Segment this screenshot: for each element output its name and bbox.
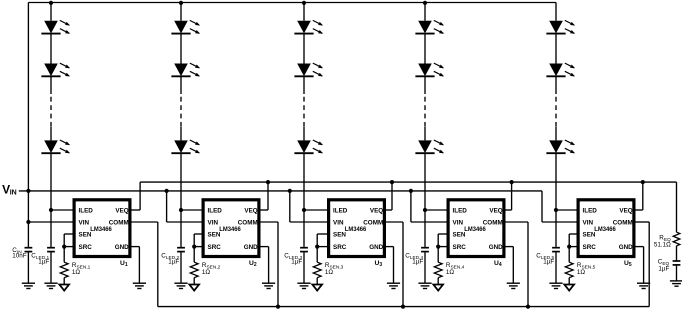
- svg-text:IN: IN: [10, 189, 17, 196]
- svg-text:GND: GND: [369, 244, 383, 251]
- svg-text:VIN: VIN: [453, 219, 464, 226]
- svg-text:LM3466: LM3466: [594, 226, 616, 233]
- svg-text:SRC: SRC: [208, 244, 222, 251]
- svg-text:1µF: 1µF: [412, 259, 423, 266]
- svg-text:1Ω: 1Ω: [325, 269, 334, 276]
- svg-text:1µF: 1µF: [658, 265, 669, 272]
- svg-text:GND: GND: [115, 244, 129, 251]
- svg-text:LM3466: LM3466: [464, 226, 486, 233]
- svg-text:VEQ: VEQ: [619, 207, 632, 214]
- svg-text:COMM: COMM: [238, 219, 258, 226]
- svg-text:SRC: SRC: [453, 244, 467, 251]
- svg-text:VEQ: VEQ: [370, 207, 383, 214]
- svg-text:ILED: ILED: [333, 207, 348, 214]
- svg-text:GND: GND: [489, 244, 503, 251]
- svg-text:ILED: ILED: [583, 207, 598, 214]
- svg-text:VEQ: VEQ: [489, 207, 502, 214]
- svg-text:LM3466: LM3466: [345, 226, 367, 233]
- svg-text:1µF: 1µF: [291, 259, 302, 266]
- svg-text:1Ω: 1Ω: [72, 269, 81, 276]
- svg-text:VIN: VIN: [208, 219, 219, 226]
- svg-text:COMM: COMM: [613, 219, 633, 226]
- svg-text:ILED: ILED: [79, 207, 94, 214]
- svg-text:51.1Ω: 51.1Ω: [654, 241, 671, 248]
- svg-text:1Ω: 1Ω: [446, 269, 455, 276]
- svg-text:VIN: VIN: [79, 219, 90, 226]
- svg-text:COMM: COMM: [363, 219, 383, 226]
- svg-text:1µF: 1µF: [543, 259, 554, 266]
- svg-text:SRC: SRC: [333, 244, 347, 251]
- svg-text:LM3466: LM3466: [219, 226, 241, 233]
- svg-text:COMM: COMM: [109, 219, 129, 226]
- svg-text:VEQ: VEQ: [115, 207, 128, 214]
- svg-text:COMM: COMM: [483, 219, 503, 226]
- svg-text:GND: GND: [244, 244, 258, 251]
- svg-text:ILED: ILED: [453, 207, 468, 214]
- svg-text:VIN: VIN: [583, 219, 594, 226]
- svg-text:LM3466: LM3466: [90, 226, 112, 233]
- svg-text:1µF: 1µF: [168, 259, 179, 266]
- svg-text:1Ω: 1Ω: [577, 269, 586, 276]
- svg-text:ILED: ILED: [208, 207, 223, 214]
- svg-text:VIN: VIN: [333, 219, 344, 226]
- svg-text:SRC: SRC: [583, 244, 597, 251]
- svg-text:10nF: 10nF: [12, 253, 27, 260]
- svg-text:VEQ: VEQ: [244, 207, 257, 214]
- svg-text:1Ω: 1Ω: [202, 269, 211, 276]
- svg-text:GND: GND: [619, 244, 633, 251]
- svg-text:1µF: 1µF: [38, 259, 49, 266]
- svg-text:SRC: SRC: [79, 244, 93, 251]
